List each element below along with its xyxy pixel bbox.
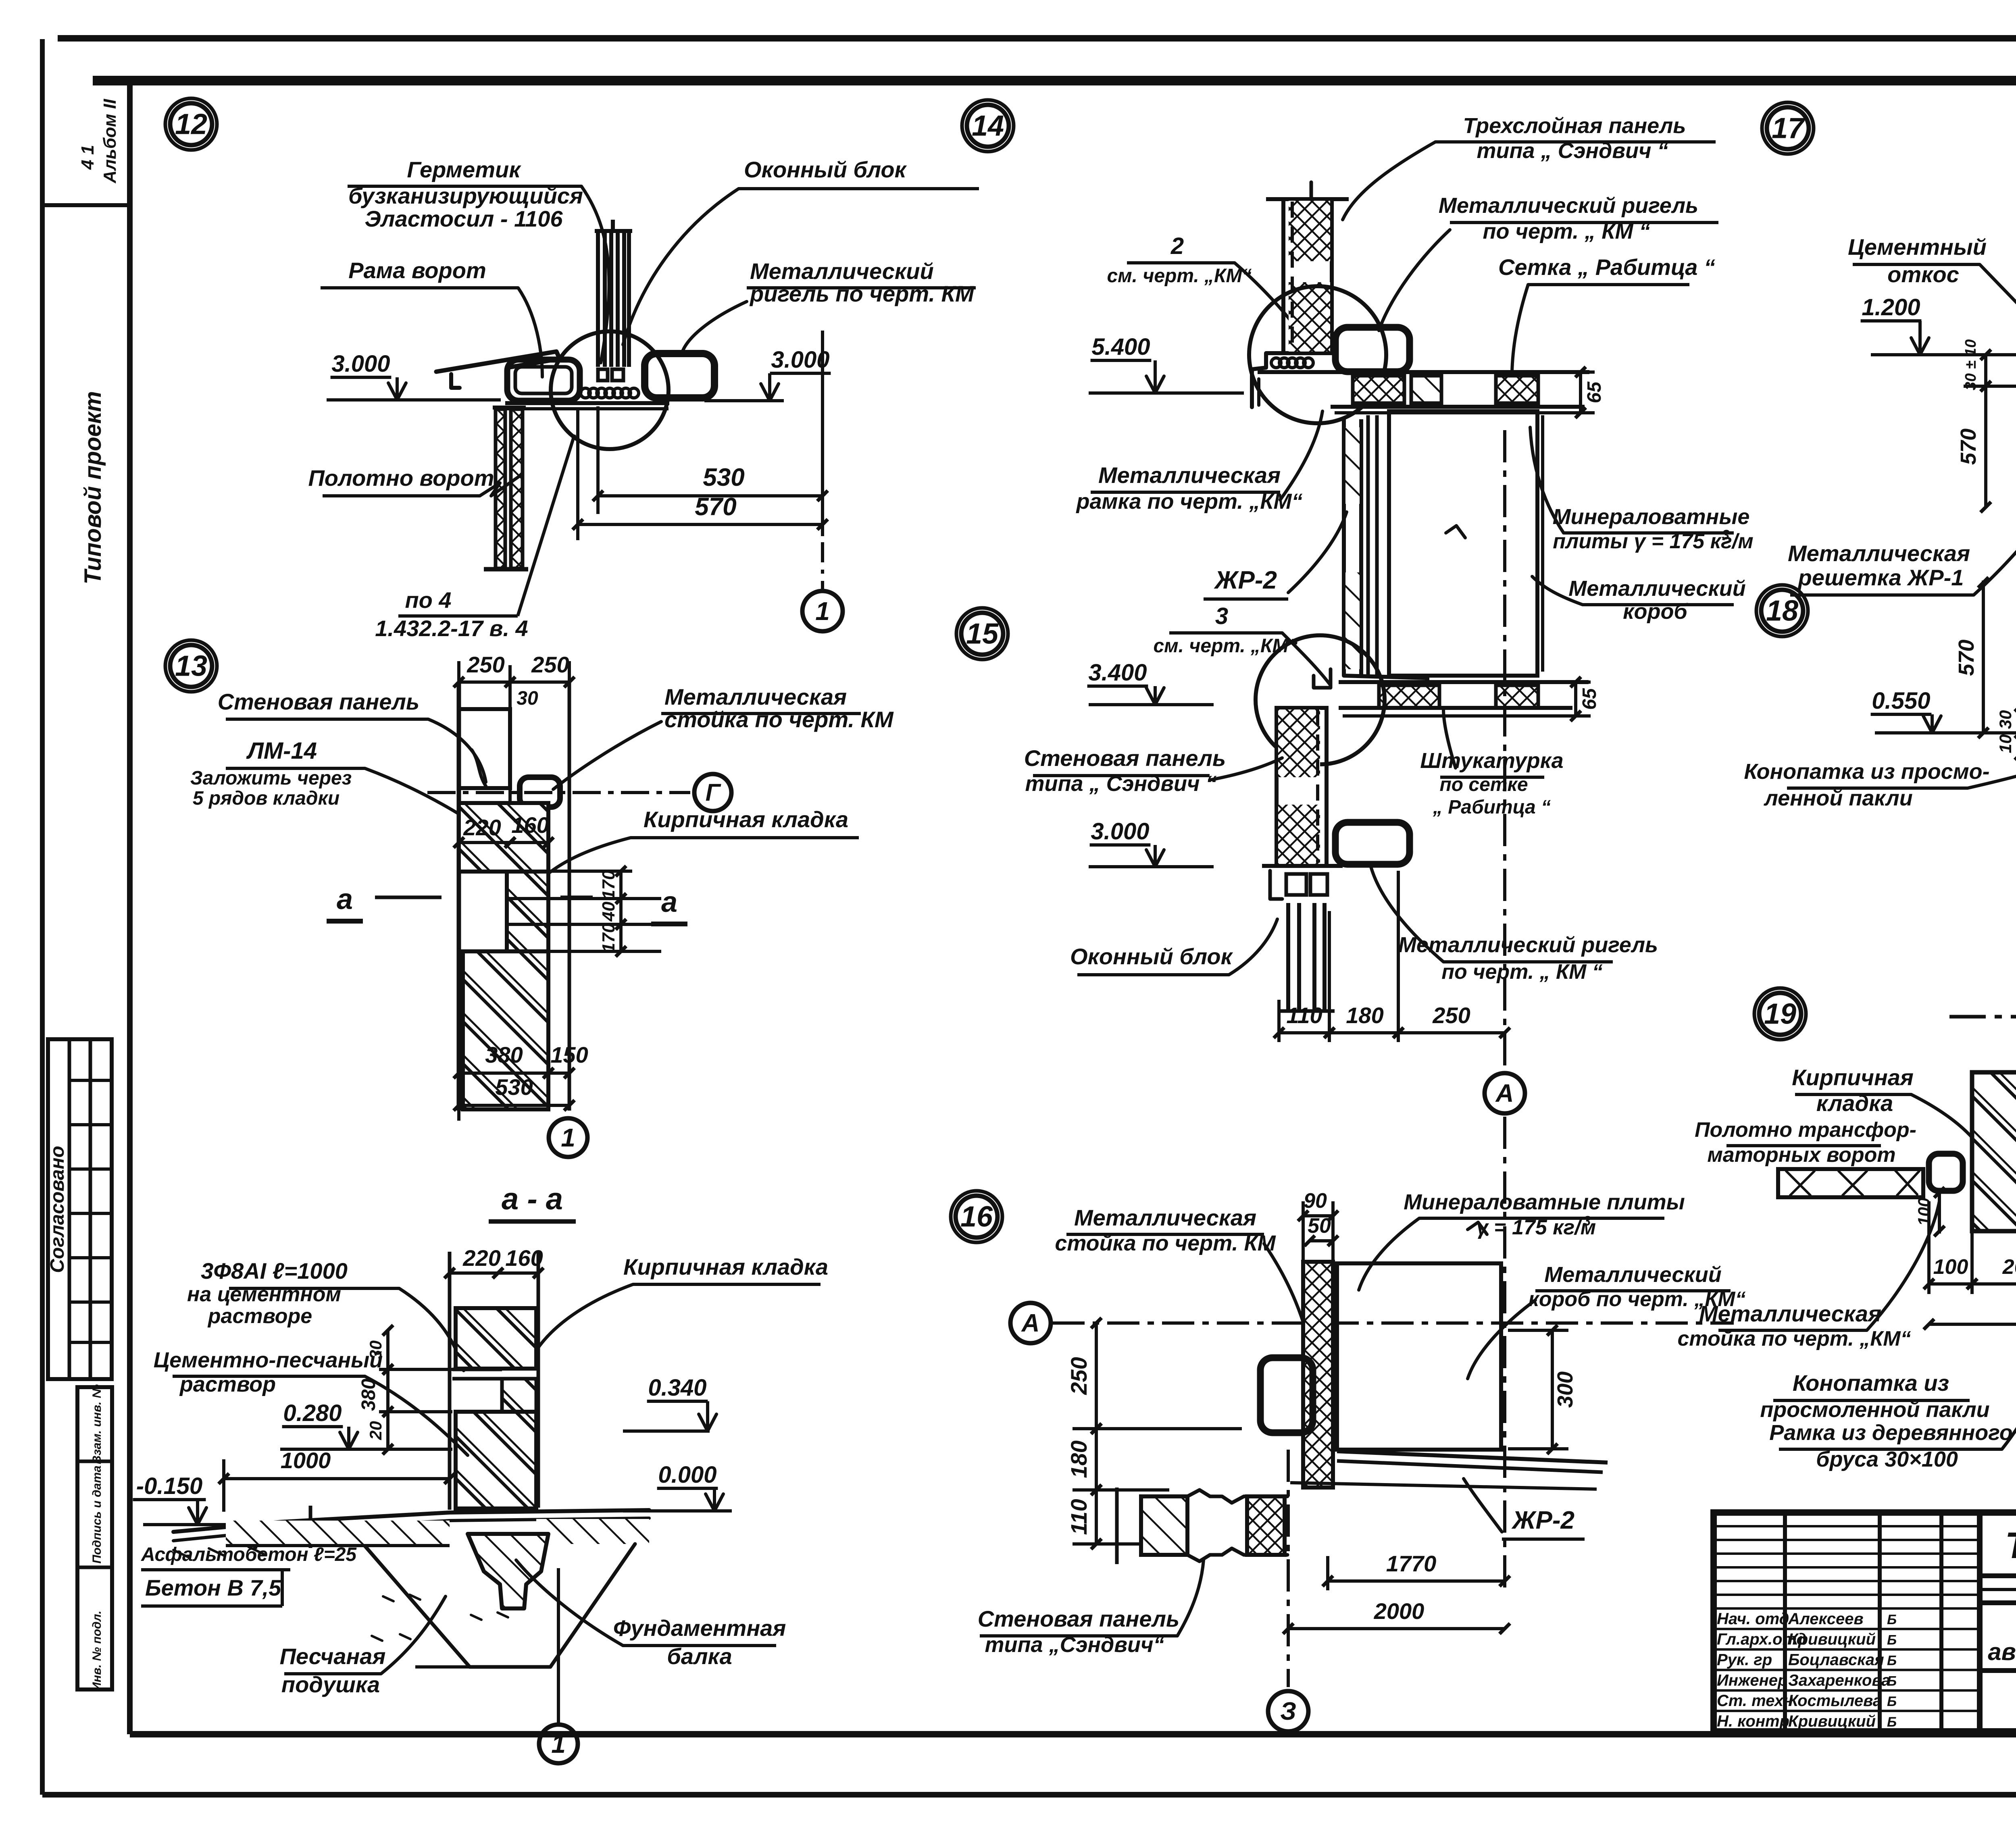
label Конопатка detail 18 xyxy=(1744,759,1989,810)
leader wall panel 15 xyxy=(1210,758,1282,780)
dimension 530 detail 12 xyxy=(593,331,828,536)
axis bubble А and line detail 16 xyxy=(1010,1303,1734,1343)
ground hatch under floor section a-a xyxy=(226,1519,649,1546)
section mark a right detail 13 xyxy=(651,886,687,924)
label Сетка Рабитца detail 14 xyxy=(1498,254,1715,285)
label Рама ворот detail 12 xyxy=(321,258,518,288)
node bubble 1 section a-a xyxy=(539,1568,578,1763)
svg-text:по 4: по 4 xyxy=(405,587,451,613)
leader oakum 18 xyxy=(1968,760,2016,788)
svg-text:1: 1 xyxy=(551,1729,566,1758)
svg-text:Взам. инв. №: Взам. инв. № xyxy=(90,1384,104,1464)
label Цементно-песчаный раствор section a-a xyxy=(154,1348,383,1396)
svg-text:100: 100 xyxy=(1933,1255,1968,1279)
detail bubble 17 xyxy=(1762,102,1814,154)
svg-text:ТП 405-7- 4.86: ТП 405-7- 4.86 xyxy=(2005,1525,2016,1566)
leader mesh 14 xyxy=(1512,285,1528,385)
label Кирпичная кладка detail 13 xyxy=(631,807,859,838)
sandwich panel upper detail 13 xyxy=(459,709,510,788)
svg-text:Металлическая: Металлическая xyxy=(1788,541,1970,566)
svg-text:Б‍: Б‍ xyxy=(1887,1714,1897,1730)
svg-text:Подпись и дата: Подпись и дата xyxy=(90,1465,104,1563)
metal girder tube detail 12 xyxy=(645,354,714,398)
svg-text:170: 170 xyxy=(599,870,619,900)
brick pier hatched section a-a xyxy=(456,1308,536,1508)
left margin Согласовано table xyxy=(47,1039,112,1379)
svg-text:5.400: 5.400 xyxy=(1091,334,1150,360)
label Трехслойная панель detail 14 xyxy=(1435,114,1716,163)
svg-text:Кривицкий: Кривицкий xyxy=(1788,1631,1876,1648)
label Минераловатные плиты detail 16 xyxy=(1404,1190,1685,1239)
svg-text:0.550: 0.550 xyxy=(1872,688,1930,714)
label Металлическая стойка detail 16 xyxy=(1055,1205,1276,1255)
svg-text:Костылева: Костылева xyxy=(1788,1692,1882,1710)
dimension 250 250 30 detail 13 xyxy=(454,652,575,875)
foundation beam section a-a xyxy=(468,1534,548,1608)
leader sand cushion xyxy=(381,1596,446,1674)
svg-text:Инженер: Инженер xyxy=(1717,1671,1787,1689)
leader metal stud 13 xyxy=(553,722,661,789)
svg-text:Стеновая панель: Стеновая панель xyxy=(218,689,420,714)
svg-text:Г: Г xyxy=(706,779,722,806)
axis line З detail 16 xyxy=(1268,1450,1308,1731)
leader gate frame xyxy=(518,288,542,377)
svg-text:рамка по черт. „КМ“: рамка по черт. „КМ“ xyxy=(1076,489,1303,514)
svg-text:65: 65 xyxy=(1579,688,1600,710)
label Кирпичная кладка section a-a xyxy=(623,1254,828,1284)
elevation 3.000 right detail 12 xyxy=(704,347,831,401)
label Асфальтобетон section a-a xyxy=(141,1544,357,1570)
svg-text:380: 380 xyxy=(485,1042,523,1067)
node bubble Г detail 13 xyxy=(694,774,731,811)
dimension 65 detail 14 xyxy=(1554,367,1605,418)
svg-text:180: 180 xyxy=(1066,1440,1091,1478)
svg-text:3: 3 xyxy=(1722,527,1730,543)
elevation 5.400 detail 14 xyxy=(1089,334,1244,393)
axis line and bubble А detail 15 xyxy=(1485,430,1525,1113)
svg-text:Б‍: Б‍ xyxy=(1887,1694,1897,1709)
elevation 1.200 detail 17 xyxy=(1861,294,2016,355)
svg-text:Конопатка из: Конопатка из xyxy=(1793,1370,1949,1396)
svg-text:15: 15 xyxy=(966,618,999,650)
svg-text:90: 90 xyxy=(1304,1189,1327,1213)
svg-text:220: 220 xyxy=(463,815,501,840)
svg-text:19: 19 xyxy=(1764,998,1796,1030)
svg-text:Рамка из деревянного: Рамка из деревянного xyxy=(1769,1421,2012,1445)
top axis line detail 19 xyxy=(1949,999,2016,1039)
svg-text:автомобильных шин: автомобильных шин xyxy=(1988,1638,2016,1665)
svg-text:на цементном: на цементном xyxy=(187,1283,341,1306)
leader stud 19 xyxy=(1867,1201,1939,1330)
wall corner flashing detail 15 xyxy=(1314,669,1427,688)
label Минераловатные плиты detail 14 xyxy=(1553,505,1754,553)
dim 2100 detail 19 xyxy=(1924,1044,2016,1334)
detail bubble 12 xyxy=(165,98,217,150)
svg-text:250: 250 xyxy=(467,652,504,677)
bottom dims 100 260 10 detail 19 xyxy=(1924,1201,2016,1314)
reference note по 4 detail 12 xyxy=(375,587,528,641)
leader reference 3 xyxy=(1282,633,1331,685)
svg-text:Сетка „ Рабитца “: Сетка „ Рабитца “ xyxy=(1498,254,1715,280)
leader sealant to glazing unit xyxy=(581,186,609,363)
leader window block xyxy=(623,189,739,345)
ceiling band detail 15 xyxy=(1339,682,1589,716)
left margin text Типовой проект xyxy=(80,391,106,585)
leader girder 15 xyxy=(1371,867,1443,962)
dimension 300 detail 16 xyxy=(1508,1325,1577,1454)
svg-text:0.280: 0.280 xyxy=(283,1400,342,1426)
svg-text:2: 2 xyxy=(1170,233,1184,259)
label Кирпичная кладка detail 19 xyxy=(1792,1065,1914,1116)
svg-text:530: 530 xyxy=(703,464,744,491)
elevation 3.000 detail 15 xyxy=(1089,818,1214,867)
wall face verticals detail 13 xyxy=(459,682,569,1111)
dimension 380 150 detail 13 xyxy=(454,1042,588,1121)
section cut line detail 13 xyxy=(375,896,593,899)
leader rebar to mortar joint xyxy=(399,1288,464,1371)
svg-text:Металлический: Металлический xyxy=(1568,576,1745,601)
svg-text:Металлический: Металлический xyxy=(1544,1263,1721,1287)
title block project number ТП 405-7-4.86 АР xyxy=(1980,1524,2016,1603)
groove dimensions 170 40 170 detail 13 xyxy=(507,866,661,957)
svg-text:типа „ Сэндвич “: типа „ Сэндвич “ xyxy=(1477,139,1668,163)
leader grille 17 xyxy=(1974,484,2016,595)
svg-text:Стеновая панель: Стеновая панель xyxy=(1024,745,1226,771)
svg-text:40: 40 xyxy=(599,901,619,922)
svg-text:Рама ворот: Рама ворот xyxy=(348,258,486,283)
gate leaf flashing profile detail 12 xyxy=(436,352,560,388)
gate frame tube detail 12 xyxy=(507,360,580,401)
svg-text:раствор: раствор xyxy=(179,1372,276,1396)
svg-text:Типовой проект: Типовой проект xyxy=(80,391,106,585)
elevation 3.000 left detail 12 xyxy=(327,351,501,400)
flashing and sealant detail 14 xyxy=(1252,353,1313,407)
svg-text:Оконный блок: Оконный блок xyxy=(1070,944,1233,969)
section title а-а xyxy=(489,1182,576,1221)
label Стеновая панель detail 13 xyxy=(218,689,428,719)
svg-text:13: 13 xyxy=(175,650,207,682)
svg-text:Металлический ригель: Металлический ригель xyxy=(1439,193,1698,218)
svg-text:Согласовано: Согласовано xyxy=(47,1146,68,1273)
svg-text:Герметик: Герметик xyxy=(407,157,521,182)
leader wall panel 16 xyxy=(1177,1560,1204,1636)
label Полотно ворот detail 19 xyxy=(1695,1118,1916,1167)
svg-text:3.000: 3.000 xyxy=(771,347,829,373)
svg-text:типа „Сэндвич“: типа „Сэндвич“ xyxy=(985,1633,1164,1657)
svg-text:1000: 1000 xyxy=(281,1448,331,1473)
svg-text:стойка по черт. КМ: стойка по черт. КМ xyxy=(664,707,894,732)
svg-text:Алексеев: Алексеев xyxy=(1788,1610,1864,1628)
svg-text:50: 50 xyxy=(1308,1214,1331,1238)
svg-text:Эластосил - 1106: Эластосил - 1106 xyxy=(364,206,563,231)
svg-text:Заложить через: Заложить через xyxy=(190,768,352,789)
title block sheet name Детали 12-19 xyxy=(1980,1671,2016,1716)
leader brick section a-a xyxy=(536,1284,633,1350)
svg-text:кладка: кладка xyxy=(1816,1090,1893,1116)
svg-text:65: 65 xyxy=(1584,381,1605,404)
svg-text:17: 17 xyxy=(1772,112,1805,144)
svg-text:3.000: 3.000 xyxy=(331,351,390,377)
window block detail 15 xyxy=(1270,871,1335,1011)
svg-text:ригель по черт. КМ: ригель по черт. КМ xyxy=(749,281,975,306)
floor slab lines section a-a xyxy=(173,1506,649,1548)
dim 100 vertical detail 19 xyxy=(1914,1187,1945,1236)
elevation 0.550 detail 18 xyxy=(1871,688,2016,733)
svg-text:ЖР-2: ЖР-2 xyxy=(1214,566,1277,594)
svg-text:Асфальтобетон ℓ=25: Асфальтобетон ℓ=25 xyxy=(141,1544,357,1565)
detail bubble 15 xyxy=(956,608,1008,660)
vertical dims 30 10 570 detail 17 xyxy=(1956,339,2016,512)
window mullion glazing detail 12 xyxy=(595,220,632,381)
svg-text:Рук. гр: Рук. гр xyxy=(1717,1651,1772,1669)
dimension 2000 detail 16 xyxy=(1288,1627,1505,1630)
elevation 0.340 right section a-a xyxy=(623,1375,716,1431)
leader ЖР-2 16 xyxy=(1464,1479,1502,1532)
leader foundation beam xyxy=(516,1560,623,1646)
detail indicator circle detail 12 xyxy=(551,331,669,449)
bottom rail lines detail 16 xyxy=(1290,1451,1608,1489)
label Металлическая стойка detail 13 xyxy=(661,684,894,732)
brick wall hatched plan detail 13 xyxy=(459,803,548,1109)
label Цементный откос detail 17 xyxy=(1848,234,1987,287)
dimensions 90 50 detail 16 xyxy=(1298,1189,1338,1262)
svg-text:Фундаментная: Фундаментная xyxy=(613,1615,786,1641)
elevation -0.150 left section a-a xyxy=(133,1473,226,1525)
svg-text:3: 3 xyxy=(1583,1213,1591,1229)
label Полотно ворот detail 12 xyxy=(308,465,520,496)
svg-text:А: А xyxy=(1021,1309,1040,1337)
title block object name Цех по ремонту xyxy=(1988,1610,2016,1665)
label Металлическая рамка detail 14 xyxy=(1076,462,1303,514)
label sealant Эластосил detail 12 xyxy=(348,157,583,231)
metal girder tube detail 15 xyxy=(1335,822,1410,864)
mortar bed lines section a-a xyxy=(452,1369,502,1379)
leader girder 14 xyxy=(1379,230,1450,331)
axis line Г detail 13 xyxy=(427,791,690,794)
svg-text:Минераловатные плиты: Минераловатные плиты xyxy=(1404,1190,1685,1214)
elevation 3.400 detail 15 xyxy=(1087,660,1214,705)
svg-text:стойка по черт. КМ: стойка по черт. КМ xyxy=(1055,1231,1276,1255)
sealant squiggle detail 12 xyxy=(581,388,639,398)
svg-text:Металлическая: Металлическая xyxy=(1098,462,1281,488)
svg-text:Цементно-песчаный: Цементно-песчаный xyxy=(154,1348,383,1372)
svg-text:Захаренкова: Захаренкова xyxy=(1788,1671,1890,1689)
leader metal box 16 xyxy=(1468,1300,1535,1379)
svg-text:Н. контр: Н. контр xyxy=(1717,1712,1789,1730)
label Фундаментная балка section a-a xyxy=(613,1615,786,1669)
sandwich panel column detail 15 xyxy=(1262,708,1343,866)
metal box outline detail 16 xyxy=(1337,1222,1501,1450)
svg-text:Металлический ригель: Металлический ригель xyxy=(1398,933,1658,957)
wall below and metal box detail 14 xyxy=(1344,411,1543,676)
dimension 220 160 detail 13 xyxy=(454,812,554,848)
svg-text:Цементный: Цементный xyxy=(1848,234,1987,260)
dimension 220 160 section a-a xyxy=(444,1245,544,1510)
label Металлический короб по черт КМ detail 16 xyxy=(1529,1263,1746,1311)
ceiling band hatched detail 14 xyxy=(1258,372,1589,413)
metal stud column hatched detail 16 xyxy=(1303,1262,1333,1488)
sill plate lines detail 12 xyxy=(505,403,669,409)
vertical dimensions 250 180 110 detail 16 xyxy=(1066,1318,1242,1549)
svg-text:„ Рабитца “: „ Рабитца “ xyxy=(1433,797,1551,818)
wall panel plan wavy detail 16 xyxy=(1117,1488,1287,1564)
svg-text:Б‍: Б‍ xyxy=(1887,1633,1897,1648)
label Оконный блок detail 15 xyxy=(1070,944,1233,975)
svg-text:0.340: 0.340 xyxy=(648,1375,706,1401)
label Стеновая панель Сэндвич detail 15 xyxy=(1024,745,1226,796)
leader wall panel 13 xyxy=(428,719,486,782)
svg-text:Кирпичная: Кирпичная xyxy=(1792,1065,1914,1090)
svg-text:30: 30 xyxy=(1996,710,2015,729)
svg-text:типа „ Сэндвич “: типа „ Сэндвич “ xyxy=(1025,772,1217,796)
leader plaster 15 xyxy=(1443,709,1456,768)
label Штукатурка detail 15 xyxy=(1420,749,1563,818)
detail bubble 16 xyxy=(951,1191,1002,1242)
svg-text:Альбом II: Альбом II xyxy=(100,99,120,183)
detail bubble 18 xyxy=(1756,585,1808,637)
svg-text:откос: откос xyxy=(1887,262,1959,287)
svg-text:170: 170 xyxy=(599,923,619,953)
title block signature grid xyxy=(1714,1513,1980,1731)
svg-text:4 1: 4 1 xyxy=(78,145,98,170)
leader cement slope 17 xyxy=(1980,264,2016,351)
svg-text:110: 110 xyxy=(1286,1003,1322,1028)
leader stud 16 xyxy=(1264,1244,1312,1361)
svg-text:180: 180 xyxy=(1346,1003,1383,1028)
leader mortar section a-a xyxy=(365,1376,468,1455)
rotated dims 30 380 20 section a-a xyxy=(358,1325,452,1454)
leader reference to detail circle 12 xyxy=(518,435,575,616)
svg-text:ЛМ-14: ЛМ-14 xyxy=(246,738,317,764)
svg-text:12: 12 xyxy=(175,108,207,140)
label Рамка из деревянного бруса detail 19 xyxy=(1769,1421,2012,1471)
svg-text:просмоленной пакли: просмоленной пакли xyxy=(1760,1398,1989,1422)
dimension 65 detail 15 xyxy=(1552,677,1600,721)
svg-text:110: 110 xyxy=(1066,1499,1091,1535)
svg-text:Штукатурка: Штукатурка xyxy=(1420,749,1563,773)
brick pier plan detail 19 xyxy=(1972,1072,2016,1231)
label Металлический ригель detail 14 xyxy=(1439,193,1718,243)
dimension 570 detail 12 xyxy=(573,410,828,589)
dimension 1000 section a-a xyxy=(219,1448,455,1512)
svg-text:бузканизирующийся: бузканизирующийся xyxy=(348,183,583,208)
leader ЛМ-14 to wall xyxy=(365,768,500,841)
left margin stamp boxes Взам Подпись Инв xyxy=(77,1384,112,1691)
svg-text:30 ± 10: 30 ± 10 xyxy=(1962,339,1979,391)
label Металлический ригель detail 12 xyxy=(747,258,976,306)
detail bubble 19 xyxy=(1754,988,1806,1040)
svg-text:Инв. № подл.: Инв. № подл. xyxy=(90,1610,104,1691)
svg-text:1.200: 1.200 xyxy=(1862,294,1920,320)
label Металлический короб detail 14 xyxy=(1568,576,1745,624)
detail bubble 13 xyxy=(165,640,217,692)
leader brick to wall 13 xyxy=(536,838,631,885)
svg-text:30: 30 xyxy=(366,1340,385,1359)
svg-text:А: А xyxy=(1495,1080,1514,1107)
svg-text:Песчаная: Песчаная xyxy=(280,1644,386,1669)
label 3Ф8АI rebar section a-a xyxy=(187,1258,399,1328)
dimension 530 detail 13 xyxy=(459,1104,569,1107)
svg-text:Ст. техн: Ст. техн xyxy=(1717,1692,1793,1710)
svg-text:10: 10 xyxy=(1996,734,2015,753)
svg-text:Б‍: Б‍ xyxy=(1887,1653,1897,1669)
svg-text:250: 250 xyxy=(1066,1357,1091,1395)
dimensions 110 180 250 detail 15 xyxy=(1274,871,1510,1042)
svg-text:γ = 175 кг/м: γ = 175 кг/м xyxy=(1477,1216,1596,1239)
foundation pit outline section a-a xyxy=(173,1544,635,1667)
label Стеновая панель detail 16 xyxy=(978,1606,1180,1657)
svg-text:3Ф8АI ℓ=1000: 3Ф8АI ℓ=1000 xyxy=(201,1258,348,1284)
svg-text:маторных ворот: маторных ворот xyxy=(1707,1143,1895,1167)
svg-text:а: а xyxy=(661,886,677,918)
sand cushion ticks section a-a xyxy=(372,1595,516,1667)
svg-text:подушка: подушка xyxy=(281,1672,380,1697)
svg-text:растворе: растворе xyxy=(207,1305,312,1328)
leader oakum frame 19 xyxy=(2002,1234,2016,1449)
leader window block 15 xyxy=(1229,919,1277,975)
label ЖР-2 detail 14 xyxy=(1204,566,1288,599)
elevation 0.280 section a-a xyxy=(280,1400,450,1449)
dims 30 10 detail 18 xyxy=(1996,701,2016,760)
svg-text:Стеновая панель: Стеновая панель xyxy=(978,1606,1180,1631)
node bubble 1 detail 12 xyxy=(802,591,843,631)
svg-text:по сетке: по сетке xyxy=(1439,774,1528,795)
svg-text:300: 300 xyxy=(1553,1371,1577,1408)
svg-text:14: 14 xyxy=(972,110,1004,142)
metal stud rounded profile detail 13 xyxy=(520,777,560,807)
svg-text:150: 150 xyxy=(550,1042,588,1067)
svg-text:Металлическая: Металлическая xyxy=(664,684,847,709)
svg-text:а: а xyxy=(337,883,353,915)
metal girder tube detail 14 xyxy=(1335,327,1410,372)
elevation 0.000 right section a-a xyxy=(623,1462,732,1511)
label Бетон B7.5 section a-a xyxy=(141,1570,282,1606)
svg-text:260: 260 xyxy=(2002,1255,2016,1279)
svg-text:Металлическая: Металлическая xyxy=(1699,1301,1881,1326)
svg-text:Бетон В 7,5: Бетон В 7,5 xyxy=(145,1575,281,1600)
svg-text:380: 380 xyxy=(358,1379,379,1411)
svg-text:Оконный блок: Оконный блок xyxy=(744,157,907,182)
label Конопатка detail 19 xyxy=(1760,1370,1989,1422)
svg-text:Кривицкий: Кривицкий xyxy=(1788,1712,1876,1730)
svg-text:Металлический: Металлический xyxy=(750,258,934,284)
svg-text:18: 18 xyxy=(1766,595,1798,627)
leader ЖР-2 to wall 14 xyxy=(1288,512,1347,593)
reference 2 см.черт.КМ detail 14 xyxy=(1107,233,1252,287)
sandwich panel column detail 14 xyxy=(1266,182,1349,353)
label Оконный блок detail 12 xyxy=(739,157,979,189)
svg-text:530: 530 xyxy=(495,1074,533,1100)
svg-text:Б‍: Б‍ xyxy=(1887,1612,1897,1627)
svg-text:Б‍: Б‍ xyxy=(1887,1673,1897,1689)
svg-text:по черт. „ КМ “: по черт. „ КМ “ xyxy=(1441,960,1603,984)
label Металлическая решетка ЖР-1 detail 17 xyxy=(1788,541,1974,595)
svg-text:2000: 2000 xyxy=(1374,1598,1425,1624)
label Металлический ригель detail 15 xyxy=(1398,933,1658,984)
svg-text:20: 20 xyxy=(366,1421,385,1440)
svg-text:балка: балка xyxy=(667,1644,732,1669)
svg-text:5 рядов кладки: 5 рядов кладки xyxy=(193,788,339,809)
detail node circle 14 xyxy=(1249,286,1386,423)
leader frame 14 xyxy=(1280,411,1322,500)
leader metal box 14 xyxy=(1532,576,1583,605)
gate leaf plan detail 19 xyxy=(1778,1154,1963,1197)
leader reference 2 to node xyxy=(1235,263,1304,339)
node bubble 1 detail 13 xyxy=(549,1118,587,1157)
metal frame rounded detail 16 xyxy=(1260,1358,1313,1433)
svg-text:0.000: 0.000 xyxy=(658,1462,716,1488)
svg-text:1.432.2-17 в. 4: 1.432.2-17 в. 4 xyxy=(375,616,528,641)
